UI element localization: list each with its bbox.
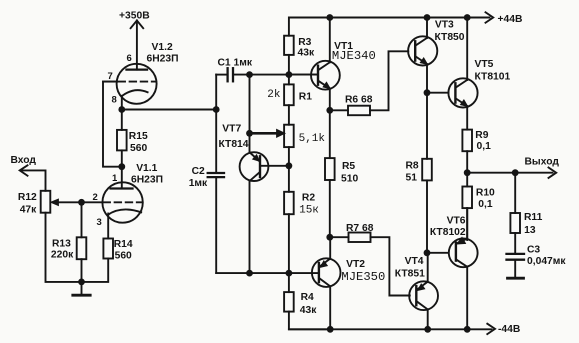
- svg-text:R12: R12: [18, 192, 37, 203]
- svg-text:КТ8101: КТ8101: [475, 71, 511, 82]
- tube V1.2 6N23P triode: [103, 64, 157, 110]
- svg-text:5,1k: 5,1k: [299, 133, 326, 145]
- svg-text:VT6: VT6: [447, 215, 466, 226]
- svg-text:R6 68: R6 68: [345, 95, 373, 106]
- wire VT4 emitter up: [427, 253, 429, 282]
- resistor R1 2k: [284, 75, 294, 125]
- resistor R11: [510, 173, 520, 253]
- node: cathode V1.2 junction: [118, 106, 125, 113]
- potentiometer R12: [41, 191, 82, 213]
- transistor VT2 MJE350 (PNP): [312, 258, 341, 287]
- node: VT4 emitter / VT6 base junction: [424, 249, 431, 256]
- svg-text:3: 3: [97, 217, 102, 228]
- svg-text:6: 6: [127, 53, 132, 64]
- svg-text:Выход: Выход: [525, 157, 560, 168]
- transistor VT7 KT814 (PNP, base right): [240, 152, 290, 181]
- node: grid V1.1 junction: [78, 199, 85, 206]
- wire VT1 collector to +44V rail: [329, 18, 331, 63]
- wire VT2 collector to -44V rail: [329, 286, 331, 329]
- svg-text:MJE340: MJE340: [332, 49, 376, 63]
- svg-text:КТ850: КТ850: [435, 32, 465, 43]
- node: 5.1k / VT7 base junction: [286, 162, 293, 169]
- svg-text:510: 510: [341, 173, 358, 184]
- ground symbol: [73, 282, 90, 295]
- svg-text:-44В: -44В: [498, 324, 520, 335]
- resistor R13: [77, 202, 87, 282]
- svg-text:+44В: +44В: [498, 14, 523, 25]
- wire VT7 collector down: [249, 181, 251, 273]
- svg-text:1мк: 1мк: [189, 178, 208, 189]
- svg-text:КТ851: КТ851: [395, 268, 425, 279]
- resistor R8: [422, 93, 432, 253]
- svg-text:R13: R13: [52, 238, 71, 249]
- resistor R4: [284, 273, 330, 329]
- svg-text:0,1: 0,1: [478, 199, 493, 210]
- wire VT7 emitter column: [249, 75, 251, 153]
- svg-text:V1.1: V1.1: [136, 163, 157, 174]
- svg-text:R14: R14: [114, 239, 133, 250]
- svg-text:6Н23П: 6Н23П: [131, 174, 163, 185]
- resistor R3: [284, 36, 294, 75]
- capacitor C1: [216, 68, 318, 81]
- svg-text:8: 8: [112, 95, 117, 106]
- svg-text:VT2: VT2: [346, 259, 365, 270]
- node: ground junction: [78, 279, 85, 286]
- svg-text:15к: 15к: [299, 205, 319, 217]
- resistor R14: [82, 239, 114, 282]
- wire C1 column down / node: [215, 75, 217, 173]
- svg-text:51: 51: [406, 172, 418, 183]
- wire VT2 base: [216, 272, 319, 274]
- svg-text:R3: R3: [298, 37, 311, 48]
- transistor VT1 MJE340 (NPN): [289, 61, 340, 90]
- svg-text:R9: R9: [475, 130, 488, 141]
- wire VT6 collector to -44V rail: [466, 267, 468, 330]
- wire R12 bottom to ground junction: [46, 213, 82, 282]
- resistor R6 68 (horizontal): [330, 51, 409, 115]
- svg-text:560: 560: [115, 251, 132, 262]
- svg-text:R8: R8: [406, 161, 419, 172]
- wire VT2 emitter: [329, 237, 331, 258]
- resistor R2: [284, 166, 294, 273]
- svg-text:560: 560: [130, 143, 147, 154]
- wire cathode junction to C2 column: [122, 109, 216, 111]
- node: VT7 emitter / wiper arrow junction: [246, 130, 253, 137]
- node: C1 / VT7 emitter junction: [246, 71, 253, 78]
- svg-text:VT7: VT7: [222, 123, 241, 134]
- svg-text:R5: R5: [342, 161, 355, 172]
- wire VT5 collector to rail: [466, 18, 468, 80]
- svg-text:47к: 47к: [20, 204, 37, 215]
- svg-text:+350В: +350В: [119, 11, 150, 22]
- bottom -44V rail: [289, 324, 495, 334]
- wire VT1 emitter down: [329, 88, 331, 110]
- capacitor C3: [507, 254, 525, 278]
- svg-text:C3: C3: [527, 244, 540, 255]
- svg-text:7: 7: [108, 71, 113, 82]
- svg-text:VT5: VT5: [475, 59, 494, 70]
- transistor VT5 KT8101 (NPN): [427, 78, 478, 107]
- node: R11 tap on output wire: [512, 169, 519, 176]
- node: R3/R1/VT1 base junction: [286, 71, 293, 78]
- svg-text:220к: 220к: [51, 250, 74, 261]
- resistor R15: [117, 110, 127, 167]
- wire VT3 collector to rail: [426, 18, 428, 38]
- svg-text:MJE350: MJE350: [341, 270, 385, 284]
- svg-text:VT3: VT3: [435, 20, 454, 31]
- svg-text:R15: R15: [129, 131, 148, 142]
- svg-text:R11: R11: [524, 212, 543, 223]
- transistor VT4 KT851 (PNP): [409, 281, 438, 310]
- wire VT5 emitter down: [466, 106, 468, 130]
- svg-text:C1 1мк: C1 1мк: [218, 57, 253, 68]
- potentiometer 5.1k: [284, 125, 294, 166]
- top +44V rail: [289, 12, 493, 35]
- svg-text:R1: R1: [299, 92, 312, 103]
- tube V1.1 6N23P triode: [82, 167, 143, 239]
- resistor R9: [462, 130, 472, 173]
- svg-text:2k: 2k: [267, 89, 281, 101]
- node: output junction R9/R10: [464, 169, 471, 176]
- svg-text:R7 68: R7 68: [346, 223, 374, 234]
- node: R2/R4/wire junction: [286, 270, 293, 277]
- resistor R10: [462, 173, 472, 240]
- wire VT4 collector to -44V rail: [427, 309, 429, 329]
- wire VT3 emitter down: [426, 64, 428, 93]
- transistor VT3 KT850 (NPN): [408, 36, 437, 65]
- transistor VT6 KT8102 (PNP): [427, 237, 478, 267]
- svg-text:2: 2: [93, 192, 98, 203]
- svg-text:VT4: VT4: [405, 256, 424, 267]
- svg-text:6Н23П: 6Н23П: [147, 54, 179, 65]
- svg-text:1: 1: [112, 173, 118, 184]
- node: R5 bottom / R7 / VT2 emitter: [326, 234, 333, 241]
- svg-text:КТ8102: КТ8102: [430, 227, 466, 238]
- svg-text:R10: R10: [476, 188, 495, 199]
- svg-text:V1.2: V1.2: [152, 42, 173, 53]
- svg-text:43к: 43к: [300, 305, 317, 316]
- svg-text:0,1: 0,1: [477, 141, 492, 152]
- svg-text:43к: 43к: [298, 48, 315, 59]
- svg-text:C2: C2: [192, 166, 205, 177]
- ground under C3: [508, 277, 524, 280]
- wire pin7 to V1.1 anode node: [103, 82, 122, 167]
- capacitor C2: [208, 173, 224, 273]
- svg-text:КТ814: КТ814: [219, 139, 249, 150]
- node: V1.1 anode junction: [118, 163, 125, 170]
- +350V supply arrow: [131, 21, 144, 70]
- output wire and arrow: [467, 168, 556, 178]
- resistor R7 68 (horizontal): [330, 233, 410, 296]
- svg-text:0,047мк: 0,047мк: [527, 256, 566, 267]
- svg-text:Вход: Вход: [11, 155, 37, 166]
- wiper arrow to 5.1k pot: [250, 129, 286, 137]
- svg-text:R4: R4: [301, 292, 314, 303]
- wire VT6 emitter up to R10: [466, 208, 468, 239]
- svg-text:13: 13: [524, 225, 536, 236]
- node: VT7 collector on VT2 base wire: [246, 270, 253, 277]
- svg-text:R2: R2: [302, 192, 315, 203]
- resistor R5: [325, 110, 335, 237]
- Vhod input arrow: [20, 165, 46, 191]
